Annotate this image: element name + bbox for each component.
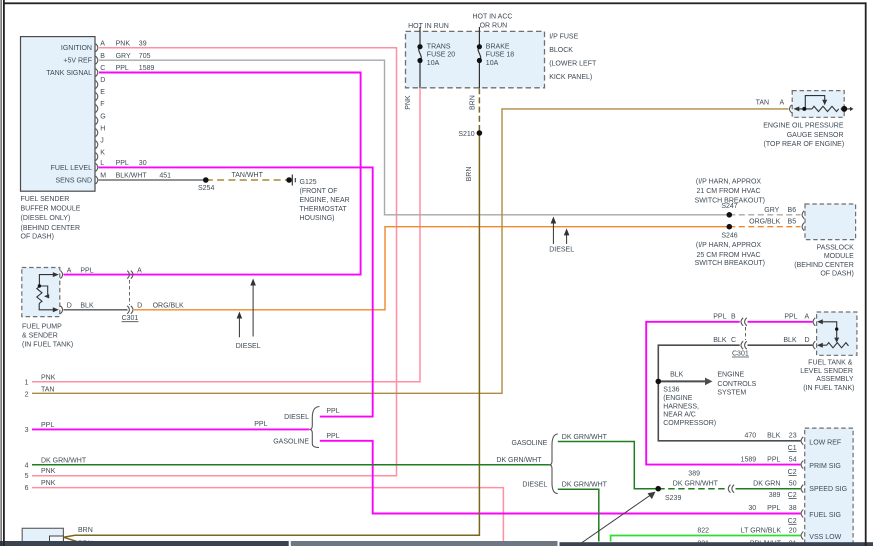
wire BLK/WHT 451: pin M to S254 [99,179,206,181]
oil pressure sensor internals [796,96,851,112]
svg-text:PPL: PPL [767,505,780,512]
svg-text:ASSEMBLY: ASSEMBLY [816,376,854,383]
svg-text:21 CM FROM HVAC: 21 CM FROM HVAC [696,188,760,195]
svg-text:DK GRN/WHT: DK GRN/WHT [673,480,719,487]
svg-text:B5: B5 [788,218,797,225]
svg-text:ORG/BLK: ORG/BLK [153,303,184,310]
svg-text:PPL: PPL [254,421,267,428]
wire TAN/WHT dashed S254 to G125 [206,179,289,181]
wire TAN row 2 to oil pressure sensor [32,109,789,393]
svg-text:K: K [100,149,105,156]
I/P fuse block box [406,31,545,87]
svg-text:DIESEL: DIESEL [236,343,261,350]
svg-text:451: 451 [159,173,171,180]
svg-text:M: M [100,173,106,180]
engine oil pressure gauge sensor box [792,91,844,118]
svg-text:ENGINE: ENGINE [717,371,744,378]
svg-text:(DIESEL ONLY): (DIESEL ONLY) [21,215,71,222]
svg-text:SYSTEM: SYSTEM [717,390,746,397]
fuel pump pin arcs [60,271,62,314]
svg-text:A: A [137,267,142,274]
svg-text:L: L [100,160,104,167]
svg-text:(BEHIND CENTER: (BEHIND CENTER [794,262,854,269]
wire GRY 705: pin B to S247 [99,60,728,215]
bottom-left sub connector box [50,536,64,543]
wire GRY dashed S247 to passlock B6 [729,214,800,216]
svg-text:BLK: BLK [713,337,727,344]
cluster pin arcs [801,437,803,540]
wire DK GRN/WHT row 4 [32,464,550,466]
fuel tank level sender internals [820,322,848,348]
arrow DIESEL to ORG near S246 [566,232,568,244]
svg-text:30: 30 [748,505,756,512]
svg-text:BRN: BRN [78,527,93,534]
svg-text:+5V REF: +5V REF [63,58,92,65]
splice S210 [477,130,483,136]
brace row3 split [310,407,320,448]
svg-text:C2: C2 [788,492,797,499]
svg-text:TRANS: TRANS [427,43,451,50]
wire BRN lower stub from bottom module [63,537,80,542]
arrow DIESEL to GRY near S247 [552,221,554,245]
svg-text:DK GRN: DK GRN [753,480,780,487]
passlock module box [805,204,856,240]
svg-text:(IN FUEL TANK): (IN FUEL TANK) [22,342,73,349]
svg-text:(LOWER LEFT: (LOWER LEFT [549,60,597,67]
svg-text:BLK: BLK [767,432,781,439]
svg-text:FUEL SIG: FUEL SIG [809,512,841,519]
splice S247 [727,212,733,218]
svg-text:470: 470 [745,432,757,439]
wire DK GRN/WHT diesel branch down off page [558,489,599,541]
svg-text:SWITCH BREAKOUT): SWITCH BREAKOUT) [695,260,765,267]
svg-text:COMPRESSOR): COMPRESSOR) [663,420,716,427]
splice S239 [655,486,661,492]
svg-text:GASOLINE: GASOLINE [273,438,309,445]
svg-text:BRN: BRN [466,167,473,182]
svg-text:G125: G125 [300,179,317,186]
fuse TRANS 20 element [419,27,422,88]
splice S254 [203,177,209,183]
splice S136 [656,379,662,385]
svg-text:PPL: PPL [784,314,797,321]
svg-text:B: B [731,314,736,321]
svg-text:DIESEL: DIESEL [522,481,547,488]
wire PPL tank pin A after C301 [748,321,813,323]
bottom scrollbar bars [0,541,289,546]
svg-text:TANK SIGNAL: TANK SIGNAL [46,70,92,77]
svg-text:& SENDER: & SENDER [22,333,58,340]
svg-text:DK GRN/WHT: DK GRN/WHT [562,434,608,441]
wire PNK from TRANS fuse to row 1 [32,88,420,382]
svg-text:FUEL SENDER: FUEL SENDER [21,196,70,203]
svg-text:THERMOSTAT: THERMOSTAT [300,206,348,213]
svg-text:PPL: PPL [713,314,726,321]
svg-text:A: A [100,40,105,47]
wire PPL row 3 [32,428,310,430]
fuel tank and level sender assembly box [817,312,857,355]
page border frame [1,0,2,546]
wire BRN S210 down and left to bottom module [63,133,479,537]
svg-text:(FRONT OF: (FRONT OF [300,188,338,195]
svg-text:S210: S210 [458,131,474,138]
svg-text:ORG/BLK: ORG/BLK [749,218,780,225]
svg-text:LEVEL SENDER: LEVEL SENDER [800,368,853,375]
svg-text:GASOLINE: GASOLINE [512,440,548,447]
svg-text:(IN FUEL TANK): (IN FUEL TANK) [803,385,854,392]
arrow BLK to engine controls system [661,380,706,382]
svg-text:D: D [67,303,72,310]
svg-text:DK GRN/WHT: DK GRN/WHT [41,457,87,464]
svg-text:54: 54 [789,456,797,463]
svg-text:BLK/WHT: BLK/WHT [116,173,148,180]
svg-text:BLOCK: BLOCK [549,47,573,54]
svg-text:PPL: PPL [116,65,129,72]
instrument cluster box [805,428,853,546]
svg-text:ENGINE OIL PRESSURE: ENGINE OIL PRESSURE [763,123,844,130]
svg-text:822: 822 [697,528,709,535]
oil sensor pin arc [790,105,792,113]
svg-text:OR RUN: OR RUN [480,23,508,30]
svg-text:BLK: BLK [80,303,94,310]
svg-text:50: 50 [789,480,797,487]
svg-text:J: J [100,137,104,144]
passlock pin arcs [802,211,804,219]
svg-text:20: 20 [789,528,797,535]
fuel pump sender internals [37,275,56,310]
svg-text:A: A [67,267,72,274]
wire BLK S136 to C301 C and LOW REF [658,345,800,441]
svg-text:FUSE 18: FUSE 18 [486,52,515,59]
fuse BRAKE 18 element [478,27,481,88]
arrow S239 pointer [577,494,653,546]
svg-text:705: 705 [139,53,151,60]
svg-text:3: 3 [25,427,29,434]
svg-text:C: C [731,337,736,344]
arrow DIESEL to PPL near C301 [252,283,254,337]
svg-text:C1: C1 [788,445,797,452]
fuel pump and sender box [22,268,60,317]
svg-text:TAN/WHT: TAN/WHT [232,172,264,179]
svg-text:PNK: PNK [41,375,56,382]
svg-text:TAN: TAN [756,100,769,107]
svg-text:GRY: GRY [764,207,779,214]
svg-text:CONTROLS: CONTROLS [717,381,756,388]
svg-text:S247: S247 [721,203,737,210]
svg-text:5: 5 [25,473,29,480]
svg-text:HOT IN ACC: HOT IN ACC [473,14,513,21]
svg-text:DIESEL: DIESEL [284,414,309,421]
svg-text:(I/P HARN, APPROX: (I/P HARN, APPROX [696,242,762,249]
svg-text:PPL: PPL [41,422,54,429]
svg-text:C2: C2 [788,518,797,525]
svg-text:S239: S239 [665,495,681,502]
svg-text:C2: C2 [788,469,797,476]
svg-text:C301: C301 [122,315,139,322]
svg-text:PNK: PNK [41,480,56,487]
speed sig inline connector arcs [728,485,734,493]
svg-text:PNK: PNK [116,40,131,47]
svg-text:FUEL TANK &: FUEL TANK & [808,360,853,367]
svg-text:H: H [100,125,105,132]
svg-text:D: D [100,77,105,84]
svg-text:MODULE: MODULE [824,253,854,260]
connector C301 left arcs [127,271,133,314]
svg-text:TAN: TAN [41,386,54,393]
connector C301 right arcs [741,318,747,349]
svg-text:(I/P HARN, APPROX: (I/P HARN, APPROX [696,178,762,185]
svg-text:LT GRN/BLK: LT GRN/BLK [741,528,782,535]
svg-text:F: F [100,101,104,108]
svg-text:KICK PANEL): KICK PANEL) [549,74,592,81]
svg-text:4: 4 [25,462,29,469]
svg-text:1589: 1589 [741,456,757,463]
tank pin arcs [813,318,815,326]
svg-text:BUFFER MODULE: BUFFER MODULE [21,205,81,212]
wire PPL gasoline stub to FUEL SIG [320,441,801,514]
svg-text:PPL: PPL [116,160,129,167]
svg-text:A: A [805,314,810,321]
splice S246 [727,224,733,230]
svg-text:C: C [100,65,105,72]
svg-text:OF DASH): OF DASH) [820,271,853,278]
svg-text:FUEL PUMP: FUEL PUMP [22,324,62,331]
svg-text:PPL: PPL [326,433,339,440]
svg-text:D: D [805,337,810,344]
svg-text:(BEHIND CENTER: (BEHIND CENTER [21,225,81,232]
svg-text:BRAKE: BRAKE [486,43,510,50]
svg-text:DK GRN/WHT: DK GRN/WHT [562,481,608,488]
wire DK GRN/WHT gasoline branch to S239 [558,442,657,489]
svg-text:GRY: GRY [116,53,131,60]
wire BLK tank pin D after C301 [748,344,813,346]
svg-text:39: 39 [139,40,147,47]
wire ORG/BLK: C301 D to S246 [134,227,728,310]
svg-text:PRIM SIG: PRIM SIG [809,463,841,470]
svg-text:S136: S136 [663,387,679,394]
svg-text:G: G [100,113,105,120]
wire PPL 30: pin L to DIESEL stub [99,167,373,416]
svg-text:389: 389 [769,492,781,499]
svg-text:25 CM FROM HVAC: 25 CM FROM HVAC [696,252,760,259]
wire DK GRN to SPEED SIG [736,488,801,490]
svg-text:S246: S246 [721,233,737,240]
svg-text:B: B [100,53,105,60]
svg-text:BLK: BLK [783,337,797,344]
svg-text:HOUSING): HOUSING) [300,215,335,222]
module pin arcs A-M [96,44,98,184]
svg-text:PPL: PPL [80,267,93,274]
svg-text:1589: 1589 [139,65,155,72]
svg-text:10A: 10A [427,60,440,67]
svg-text:HARNESS,: HARNESS, [663,403,699,410]
svg-text:(ENGINE: (ENGINE [663,395,693,402]
bottom-left module box [22,528,63,546]
svg-text:BLK: BLK [670,371,684,378]
svg-text:FUEL LEVEL: FUEL LEVEL [51,165,92,172]
brace row4 split [550,434,558,494]
svg-text:LOW REF: LOW REF [809,439,841,446]
svg-text:HOT IN RUN: HOT IN RUN [408,23,449,30]
svg-text:10A: 10A [486,60,499,67]
wire PPL 1589: pin C down to fuel pump A [64,73,361,275]
svg-text:PASSLOCK: PASSLOCK [817,244,855,251]
svg-text:SENS GND: SENS GND [55,178,92,185]
svg-text:DK GRN/WHT: DK GRN/WHT [496,457,542,464]
svg-text:D: D [137,303,142,310]
wire PNK 39: pin A to row 5 [32,48,397,476]
svg-text:OF DASH): OF DASH) [21,233,54,240]
wire DK GRN/WHT dashed S239 to connector [658,488,728,490]
svg-text:38: 38 [789,505,797,512]
fuel sender buffer module box [21,37,96,192]
svg-text:BRN: BRN [470,95,477,110]
svg-text:VSS LOW: VSS LOW [809,534,841,541]
wire ORG/BLK dashed S246 to passlock B5 [729,226,800,228]
wire BLK fuel pump D to C301 [64,309,128,311]
svg-text:NEAR A/C: NEAR A/C [663,412,696,419]
svg-text:SPEED SIG: SPEED SIG [809,486,847,493]
wire LT GRN/BLK to VSS LOW [611,536,801,542]
svg-text:2: 2 [25,391,29,398]
svg-text:C301: C301 [732,350,749,357]
svg-text:E: E [100,89,105,96]
svg-text:S254: S254 [198,185,214,192]
ground G125 symbol [286,177,292,183]
svg-text:PPL: PPL [326,408,339,415]
svg-text:(TOP REAR OF ENGINE): (TOP REAR OF ENGINE) [764,141,845,148]
svg-text:FUSE 20: FUSE 20 [427,52,456,59]
svg-text:IGNITION: IGNITION [61,45,92,52]
svg-text:23: 23 [789,432,797,439]
svg-text:A: A [780,100,785,107]
svg-text:PNK: PNK [41,468,56,475]
svg-text:ENGINE, NEAR: ENGINE, NEAR [300,197,350,204]
svg-text:1: 1 [25,379,29,386]
wire BRN dashed fuse to S210 [478,88,480,133]
arrow DIESEL to ORG/BLK near C301 [238,316,240,338]
svg-text:6: 6 [25,485,29,492]
svg-text:PNK: PNK [405,95,412,110]
svg-text:389: 389 [688,471,700,478]
wire PPL tank A to PRIM SIG [646,322,800,465]
wire PNK row 6 down at right [32,488,503,542]
svg-text:30: 30 [139,160,147,167]
svg-text:GAUGE SENSOR: GAUGE SENSOR [787,132,844,139]
svg-text:I/P FUSE: I/P FUSE [549,34,578,41]
svg-text:DIESEL: DIESEL [549,247,574,254]
svg-text:PPL: PPL [767,456,780,463]
svg-text:B6: B6 [788,207,797,214]
